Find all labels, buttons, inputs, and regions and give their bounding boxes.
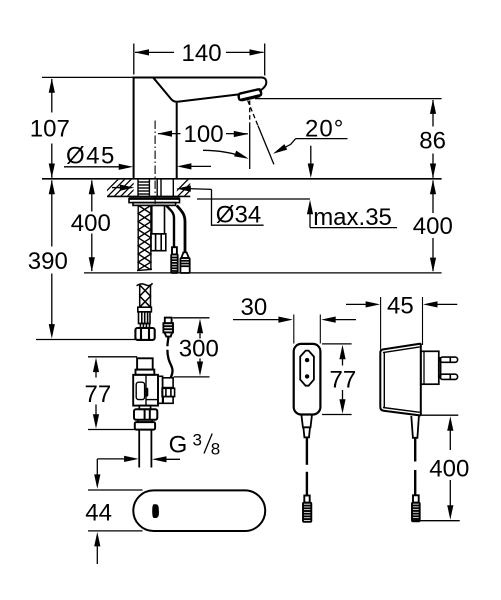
plug neck xyxy=(301,415,312,438)
faucet centerline xyxy=(154,121,156,206)
dimension 107 extension line xyxy=(42,76,133,78)
arrow onto surface xyxy=(310,146,312,167)
svg-text:Ø45: Ø45 xyxy=(66,143,116,170)
dimension 45 extension lines xyxy=(380,297,382,350)
dimension 400 left line xyxy=(91,181,93,212)
dimension 77 valve line xyxy=(95,369,97,378)
plug hole 1 xyxy=(305,358,309,362)
svg-text:Ø34: Ø34 xyxy=(216,202,261,229)
mounting flange xyxy=(129,199,180,206)
hose neck xyxy=(140,324,149,329)
shank threads in hole xyxy=(138,179,173,196)
dimension 86 reference line xyxy=(255,98,442,100)
faucet spout slope xyxy=(153,78,238,102)
adapter socket block xyxy=(421,351,441,384)
svg-text:400: 400 xyxy=(71,210,111,237)
dimension O34 arrows at hole xyxy=(112,187,123,189)
dimension 140 line xyxy=(135,51,174,53)
sensor cable 1 xyxy=(166,206,174,248)
aerator xyxy=(239,89,262,100)
euro plug body front view xyxy=(294,344,321,415)
mounting nut xyxy=(151,234,166,251)
svg-text:400: 400 xyxy=(429,455,469,482)
dimension 30 lines xyxy=(233,319,281,321)
supply pipe xyxy=(138,430,140,468)
adapter cable connector xyxy=(412,495,420,521)
valve nut 2 xyxy=(135,422,155,430)
angle arc arrow xyxy=(203,150,246,157)
label O34 leader box xyxy=(212,189,264,225)
valve cable xyxy=(167,337,168,347)
svg-text:44: 44 xyxy=(85,499,112,526)
flexible hose xyxy=(137,283,153,307)
dimension 390 bottom reference line xyxy=(36,339,135,341)
valve lower neck xyxy=(139,406,150,410)
label max.35 arrow and underline xyxy=(309,211,311,228)
valve side port xyxy=(158,376,175,403)
hose nut xyxy=(135,328,154,340)
mains pin 1 xyxy=(440,357,458,362)
spray angle line 20 deg xyxy=(248,101,258,126)
mounting surface line xyxy=(42,178,442,180)
solenoid valve top nipple xyxy=(137,358,153,369)
valve ring xyxy=(138,420,152,422)
svg-text:86: 86 xyxy=(419,128,446,155)
dimension 400 adapter line xyxy=(449,428,451,450)
dimension 77 plug line xyxy=(342,357,344,366)
faucet body outline xyxy=(134,78,267,179)
stream vertical reference line xyxy=(249,101,251,125)
hose crimp collar xyxy=(138,307,152,312)
svg-text:45: 45 xyxy=(387,293,414,320)
svg-text:400: 400 xyxy=(413,213,453,240)
sensor cable 2 xyxy=(177,206,185,253)
dimension 400 adapter reference lines xyxy=(421,414,458,416)
dimension 45 line xyxy=(346,303,368,305)
dimension 77 plug extension lines xyxy=(322,343,352,345)
valve collar xyxy=(136,370,155,375)
svg-text:107: 107 xyxy=(30,116,70,143)
svg-text:30: 30 xyxy=(241,294,268,321)
svg-text:3: 3 xyxy=(193,431,202,450)
dimension 300 extension lines xyxy=(173,317,210,319)
svg-text:77: 77 xyxy=(330,367,357,394)
counter hatch right xyxy=(171,179,209,197)
valve body xyxy=(133,375,158,406)
svg-text:20°: 20° xyxy=(305,116,344,143)
plug cable xyxy=(306,437,308,464)
plug cable connector xyxy=(303,496,311,522)
sensor window mark xyxy=(152,504,159,518)
hose ribbed section xyxy=(139,312,151,324)
label O45 leader xyxy=(64,166,122,168)
svg-text:G: G xyxy=(169,432,188,459)
connector 2 xyxy=(180,258,189,273)
svg-text:100: 100 xyxy=(184,121,224,148)
svg-text:300: 300 xyxy=(179,336,219,363)
svg-text:8: 8 xyxy=(211,440,220,459)
escutcheon oval xyxy=(133,490,265,531)
shank cylinder in hole xyxy=(156,179,158,196)
adapter cable xyxy=(414,438,416,462)
wire xyxy=(135,49,265,55)
valve cable connector xyxy=(163,318,173,337)
dimension 400 right line xyxy=(432,181,434,214)
faucet column right edge xyxy=(176,103,178,179)
dimension 100 line xyxy=(158,133,181,135)
adapter strain relief xyxy=(411,416,419,438)
dimension 44 lines xyxy=(96,459,98,477)
counter hatch left xyxy=(101,179,152,197)
connector 1 xyxy=(171,254,178,273)
label 20deg leader xyxy=(296,138,348,140)
dimension 300 line xyxy=(199,330,201,339)
svg-text:140: 140 xyxy=(182,40,222,67)
threaded shank below counter xyxy=(137,205,152,270)
counter underside line xyxy=(107,195,190,197)
label max.35 reference line xyxy=(197,198,310,200)
dimension 390 line xyxy=(51,181,53,247)
dimension 107 line xyxy=(51,79,53,113)
svg-text:77: 77 xyxy=(85,381,112,408)
dimension 86 line xyxy=(432,100,434,127)
lower reference line 400 xyxy=(84,272,442,274)
plug socket recess xyxy=(300,351,314,386)
label G3/8 arrows xyxy=(97,458,126,460)
dimension 77 valve extension lines xyxy=(88,356,137,358)
svg-text:max.35: max.35 xyxy=(313,204,392,231)
valve nut 1 xyxy=(134,409,157,420)
plug hole 2 xyxy=(305,374,309,378)
svg-text:390: 390 xyxy=(28,248,68,275)
mains pin 2 xyxy=(440,374,458,379)
power adapter body side view xyxy=(380,344,421,416)
dimension 140 extension lines xyxy=(133,44,135,75)
plug extension lines xyxy=(293,315,295,344)
mounting sleeve xyxy=(152,205,165,233)
valve window mark xyxy=(145,388,148,397)
